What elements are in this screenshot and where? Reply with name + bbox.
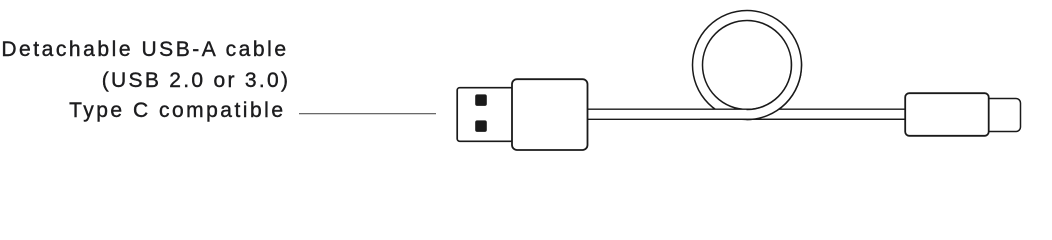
cable loop (ring behind cable) (693, 11, 802, 120)
USB-A contact pin 1 (475, 94, 487, 106)
USB-A connector shell (457, 88, 513, 142)
label text: Detachable USB-A cable / (USB 2.0 or 3.0) / Type C compatible (1, 35, 288, 66)
USB-A plug body (512, 79, 588, 150)
USB-A contact pin 2 (475, 120, 487, 131)
USB-C tip (985, 99, 1021, 132)
USB-C plug body (905, 93, 989, 136)
cable (straight run from USB-A to USB-C) (586, 109, 906, 119)
leader line (299, 113, 436, 115)
wire: cable bottom edge (continuous under loop crossing) (700, 118, 906, 120)
cable loop crossing (ring over cable, right side) (693, 11, 802, 120)
